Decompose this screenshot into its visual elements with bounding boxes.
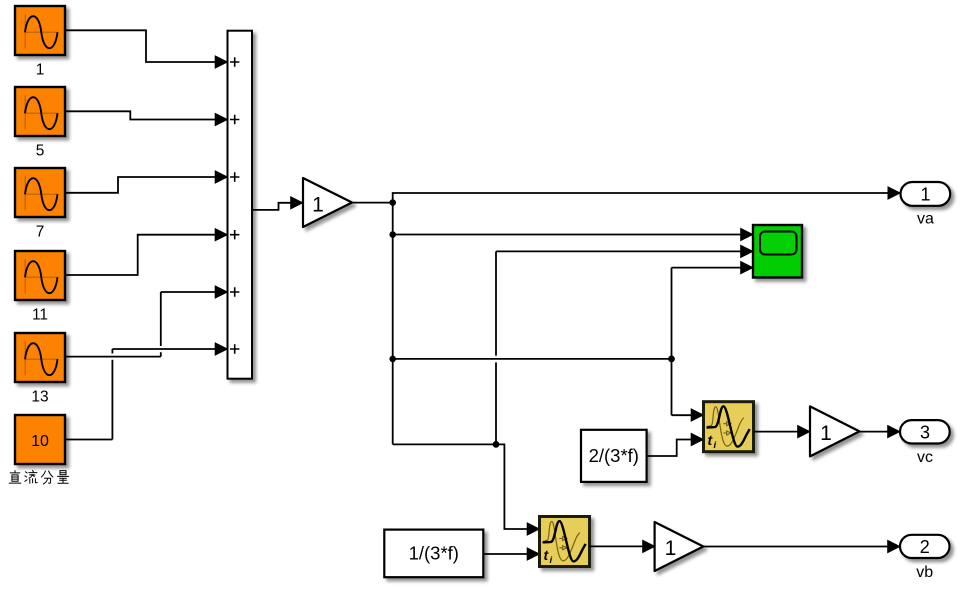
- svg-text:3: 3: [920, 423, 930, 443]
- sine source 7: [15, 168, 65, 217]
- svg-text:7: 7: [36, 224, 45, 241]
- svg-text:1/(3*f): 1/(3*f): [409, 543, 459, 564]
- riser x=496 to scope in2 (broken at y=358.9): [496, 251, 741, 444]
- wire block7 to sum port3: [65, 177, 216, 193]
- svg-text:1: 1: [820, 422, 832, 445]
- svg-text:2/(3*f): 2/(3*f): [589, 445, 639, 466]
- wire gain vb to port2: [703, 546, 888, 548]
- junction dot at x392.7 y358.9: [389, 356, 396, 363]
- 量: [57, 471, 68, 484]
- wire block5 to sum port2: [65, 111, 216, 119]
- variable time delay 1: [704, 402, 754, 452]
- svg-text:2: 2: [920, 537, 930, 557]
- bottom horizontal y=444.4 and riser to delay2 in1: [393, 444, 528, 529]
- 直: [9, 471, 21, 484]
- variable time delay 2: [540, 517, 590, 567]
- horizontal y=358.9 to x=671.5: [393, 358, 672, 360]
- sum + labels: [230, 57, 239, 353]
- svg-text:5: 5: [36, 143, 45, 160]
- svg-text:1: 1: [36, 62, 45, 79]
- wire const2 to delay1 in2: [647, 440, 692, 457]
- 流: [25, 470, 37, 483]
- svg-text:1: 1: [312, 193, 324, 216]
- svg-text:1: 1: [665, 537, 677, 560]
- gain vb: [655, 522, 704, 571]
- sine source 11: [15, 251, 65, 300]
- constant 10: [15, 415, 65, 464]
- gain U1: [303, 178, 352, 227]
- scope: [753, 225, 802, 278]
- out port va: [901, 182, 951, 206]
- sum block: [228, 31, 253, 379]
- sine source 5: [15, 87, 65, 136]
- out port vb: [900, 535, 950, 558]
- wire block11 to sum port4: [65, 235, 216, 275]
- main riser x=392.7: [392, 203, 394, 445]
- gain vc: [810, 406, 859, 456]
- svg-text:vc: vc: [917, 449, 933, 466]
- junction dot at x496 y444.4: [493, 441, 500, 448]
- wire gain to out va (steps up at junction): [352, 193, 888, 203]
- 分: [41, 471, 53, 484]
- svg-text:13: 13: [31, 389, 48, 406]
- svg-text:11: 11: [32, 307, 48, 324]
- wire sum output to gain: [252, 203, 291, 210]
- wire block13 to sum port5 (riser broken at crossing y=349): [65, 292, 216, 357]
- vertical x=671.5 with scope in3 branch and delay1 in1 branch: [672, 268, 742, 416]
- sine source 13: [15, 333, 65, 382]
- sine source 1: [15, 6, 65, 55]
- svg-text:10: 10: [31, 433, 49, 450]
- constant 2/(3*f): [581, 430, 647, 482]
- svg-text:1: 1: [920, 185, 930, 205]
- wire to scope in1: [393, 234, 741, 236]
- label 直流分量 (drawn glyphs): [9, 470, 68, 484]
- out port vc: [900, 420, 950, 443]
- junction dot at x392.7 y234.5: [389, 231, 396, 238]
- junction dot at x392.7 y202.6: [389, 199, 396, 206]
- wire delay1 to gain vc: [754, 431, 799, 433]
- wire delay2 to gain vb: [590, 545, 644, 547]
- constant 1/(3*f): [384, 530, 483, 578]
- svg-text:va: va: [917, 211, 934, 228]
- junction dot at x671.5 y358.9: [668, 356, 675, 363]
- wire block1 to sum port1: [65, 30, 216, 62]
- wire const1 to delay2 in2: [483, 553, 528, 555]
- svg-text:vb: vb: [916, 564, 933, 581]
- wire block10 to sum port6 (riser broken at crossing y=356.6): [65, 349, 216, 440]
- wire gain vc to port3: [859, 431, 888, 433]
